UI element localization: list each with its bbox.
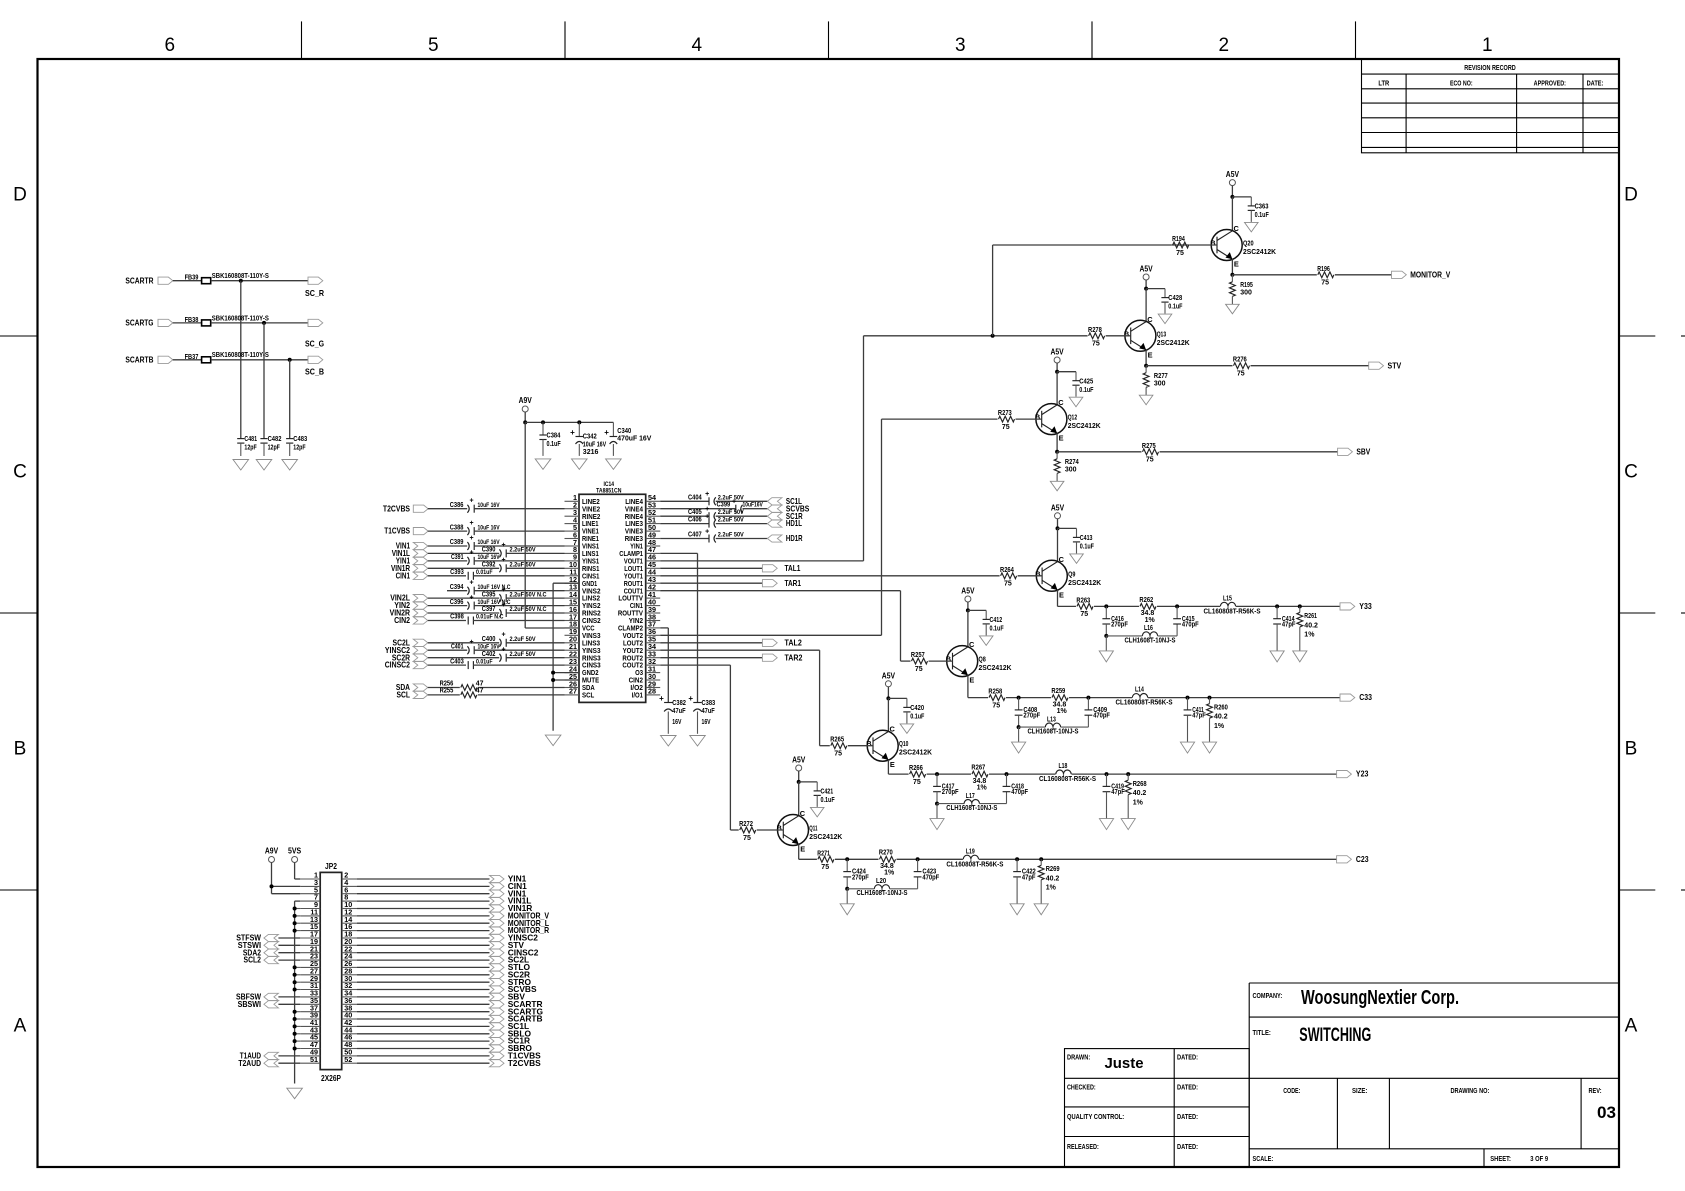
junction node SC_R <box>239 279 243 283</box>
svg-text:10uF 16V: 10uF 16V <box>478 554 501 561</box>
JP2 pin 32 <box>342 981 357 990</box>
JP2 pin 29 <box>300 974 320 983</box>
wire bus tap pin 25 <box>295 966 301 968</box>
output flag HD1L <box>767 518 802 528</box>
resistor R255 47 <box>428 688 565 698</box>
svg-text:C340: C340 <box>617 428 631 435</box>
svg-text:YINS3: YINS3 <box>582 648 601 655</box>
svg-text:47pF: 47pF <box>1282 621 1296 628</box>
JP2 pin 46 <box>342 1033 357 1042</box>
svg-text:C482: C482 <box>268 436 282 443</box>
wire cap to IC <box>506 642 564 644</box>
svg-text:470pF: 470pF <box>1093 713 1110 720</box>
svg-text:6: 6 <box>165 35 176 56</box>
zone tick left <box>0 889 38 891</box>
capacitor C425 0.1uF <box>1072 378 1094 394</box>
wire A5V down <box>1231 186 1233 197</box>
svg-text:10uF 16V N.C: 10uF 16V N.C <box>478 584 511 591</box>
input flag SCARTG <box>125 318 172 328</box>
svg-text:SCARTR: SCARTR <box>125 275 153 285</box>
svg-text:75: 75 <box>1176 250 1184 257</box>
input flag VIN2R <box>390 608 428 618</box>
svg-text:SCALE:: SCALE: <box>1253 1156 1274 1163</box>
junction <box>935 802 939 806</box>
wire pin 18 to flag YINSC2 <box>357 937 490 939</box>
svg-text:2.2uF 50V: 2.2uF 50V <box>510 651 537 658</box>
power A9V rail <box>519 395 533 412</box>
svg-text:1%: 1% <box>977 785 988 792</box>
capacitor C389 10uF 16V <box>450 535 500 550</box>
svg-text:R262: R262 <box>1139 597 1153 604</box>
IC14 pin 13 VINS2 <box>565 583 601 596</box>
ground <box>1226 304 1240 314</box>
wire to ground <box>1145 387 1147 395</box>
svg-text:R196: R196 <box>1317 266 1330 273</box>
transistor Q12 2SC2412K <box>1035 398 1101 443</box>
IC14 pin 29 I/O2 <box>630 679 660 692</box>
svg-text:C382: C382 <box>672 700 686 707</box>
junction <box>1015 857 1019 861</box>
junction <box>966 608 970 612</box>
IC14 pin 52 RINE4 <box>625 508 661 521</box>
ground <box>1270 651 1284 662</box>
JP2 pin 41 <box>300 1018 320 1027</box>
svg-text:R270: R270 <box>879 850 893 857</box>
svg-text:VOUT2: VOUT2 <box>623 633 643 640</box>
wire pin 12 to flag MONITOR_V <box>357 915 490 917</box>
svg-text:C392: C392 <box>482 562 496 569</box>
revision record table <box>1362 59 1620 152</box>
output flag YINSC2 <box>490 933 539 943</box>
resistor R194 75 <box>1172 236 1217 257</box>
IC14 pin 8 LINS1 <box>565 545 599 558</box>
svg-text:+: + <box>732 499 736 506</box>
svg-text:C: C <box>1624 461 1638 482</box>
svg-text:+: + <box>501 557 505 564</box>
svg-text:C396: C396 <box>450 599 464 606</box>
wire cap to ground <box>985 624 987 636</box>
wire cap to ground <box>1250 210 1252 222</box>
svg-text:C405: C405 <box>688 509 702 516</box>
JP2 pin 1 <box>300 871 320 880</box>
svg-text:10uF 16V: 10uF 16V <box>478 524 501 531</box>
svg-text:T1CVBS: T1CVBS <box>384 526 410 536</box>
svg-text:C391: C391 <box>451 554 464 561</box>
svg-text:2.2uF 50V N.C: 2.2uF 50V N.C <box>510 591 547 598</box>
svg-text:TITLE:: TITLE: <box>1253 1030 1271 1037</box>
svg-text:ECO NO:: ECO NO: <box>1450 81 1473 88</box>
wire R196 to MONITOR_V <box>1335 274 1392 276</box>
svg-text:10uF 16V: 10uF 16V <box>478 643 501 650</box>
input flag SBSWI <box>238 999 279 1009</box>
svg-text:2SC2412K: 2SC2412K <box>809 834 842 841</box>
svg-text:VOUT1: VOUT1 <box>624 559 643 566</box>
svg-text:52: 52 <box>344 1055 352 1064</box>
wire cap down <box>1105 624 1107 636</box>
wire pin 42 to flag SC1L <box>357 1025 490 1027</box>
input flag SCL <box>397 690 428 700</box>
svg-text:C389: C389 <box>450 539 464 546</box>
resistor R256 47 <box>428 680 565 690</box>
wire to ground <box>1105 636 1107 651</box>
svg-text:LINS2: LINS2 <box>582 596 600 603</box>
svg-text:2.2uF 50V: 2.2uF 50V <box>718 532 745 539</box>
svg-text:2SC2412K: 2SC2412K <box>1068 580 1101 587</box>
IC14 pin 36 VOUT2 <box>623 627 661 640</box>
capacitor C400 2.2uF 50V <box>482 632 536 647</box>
wire VOUT1 pin46 riser to Q13/Q20 base node <box>660 336 1087 561</box>
output flag MONITOR_R <box>490 925 550 935</box>
resistor R266 75 <box>909 765 926 786</box>
input flag VIN1 <box>396 541 428 551</box>
resistor R261 40.2 1% <box>1297 606 1318 650</box>
svg-text:SDA: SDA <box>582 685 595 692</box>
wire A5V to Q10 collector <box>887 698 889 731</box>
junction <box>293 921 297 925</box>
wire cap to ground <box>906 712 908 724</box>
wire flag to cap <box>428 649 467 651</box>
svg-text:YOUT2: YOUT2 <box>623 648 643 655</box>
ground <box>1034 904 1048 915</box>
junction A9V <box>523 420 527 424</box>
IC14 pin 15 YINS2 <box>565 597 601 610</box>
IC14 pin 10 RINS1 <box>565 560 600 573</box>
capacitor C412 0.1uF <box>983 617 1005 633</box>
IC14 pin 9 YINS1 <box>565 553 600 566</box>
svg-text:CLAMP1: CLAMP1 <box>619 551 643 558</box>
svg-text:0.1uF: 0.1uF <box>990 626 1005 633</box>
input flag VIN2L <box>390 593 428 603</box>
svg-text:C: C <box>13 461 27 482</box>
svg-text:WoosungNextier Corp.: WoosungNextier Corp. <box>1301 987 1459 1009</box>
svg-text:MONITOR_V: MONITOR_V <box>1410 269 1450 279</box>
svg-text:12pF: 12pF <box>244 445 257 452</box>
capacitor C384 0.1uF <box>539 422 561 448</box>
svg-text:C23: C23 <box>1356 854 1369 864</box>
inductor L13 CLH1608T-10NJ-S <box>1019 715 1089 735</box>
capacitor C482 12pF <box>260 436 281 452</box>
wire pin 10 to flag VIN1R <box>357 908 490 910</box>
wire bus tap pin 37 <box>295 1011 301 1013</box>
svg-text:E: E <box>1234 260 1239 269</box>
wire flag to cap <box>428 575 466 577</box>
svg-text:3 OF 9: 3 OF 9 <box>1530 1156 1548 1163</box>
wire pin 30 to flag STRO <box>357 981 490 983</box>
svg-text:75: 75 <box>1092 341 1100 348</box>
JP2 pin 5 <box>300 885 320 894</box>
svg-text:75: 75 <box>913 779 921 786</box>
transistor Q13 2SC2412K <box>1124 315 1190 360</box>
output flag STV <box>490 940 525 950</box>
wire to C413 <box>1058 528 1077 537</box>
junction <box>1208 696 1212 700</box>
capacitor C419 47pF <box>1103 774 1126 818</box>
svg-text:SCL2: SCL2 <box>244 955 262 965</box>
junction <box>1017 696 1021 700</box>
svg-text:2SC2412K: 2SC2412K <box>979 665 1012 672</box>
svg-text:SBK160808T-110Y-S: SBK160808T-110Y-S <box>212 315 269 322</box>
ground <box>1070 554 1084 564</box>
IC14 pin 51 LINE3 <box>625 515 660 528</box>
ground <box>256 460 272 471</box>
svg-text:+: + <box>469 498 473 505</box>
IC14 pin 45 LOUT1 <box>624 560 660 573</box>
output flag TAR1 <box>762 578 801 588</box>
IC14 pin 5 VINE1 <box>565 523 599 536</box>
power A5V <box>961 586 975 603</box>
wire SCARTG to FB38 <box>173 322 202 324</box>
wire cap to ground <box>816 795 818 807</box>
resistor R257 75 <box>911 652 953 673</box>
JP2 pin 45 <box>300 1033 320 1042</box>
wire to C425 <box>1057 372 1076 381</box>
JP2 pin 50 <box>342 1048 357 1057</box>
junction C384 <box>541 420 545 424</box>
JP2 pin 20 <box>342 937 357 946</box>
svg-text:C425: C425 <box>1079 378 1093 385</box>
wire <box>1006 697 1051 699</box>
resistor R268 40.2 1% <box>1125 774 1146 818</box>
resistor R273 75 <box>998 410 1042 431</box>
capacitor C397 2.2uF 50V <box>482 602 547 617</box>
svg-text:28: 28 <box>648 687 656 696</box>
IC14 pin 39 ROUTTV <box>618 605 660 618</box>
JP2 pin 13 <box>300 915 320 924</box>
svg-text:E: E <box>800 845 805 854</box>
resistor R196 75 <box>1317 266 1334 287</box>
junction Q13 emitter <box>1144 364 1148 368</box>
JP2 pin 36 <box>342 996 357 1005</box>
output flag CINSC2 <box>490 947 539 957</box>
ground <box>1121 819 1135 830</box>
resistor R277 300 <box>1143 366 1168 388</box>
junction <box>1086 696 1090 700</box>
ground <box>1293 651 1307 662</box>
svg-text:C: C <box>890 725 896 734</box>
svg-text:CL160808T-R56K-S: CL160808T-R56K-S <box>1039 776 1096 783</box>
wire bus tap pin 45 <box>295 1040 301 1042</box>
svg-text:B: B <box>14 738 27 759</box>
svg-text:R272: R272 <box>739 821 753 828</box>
svg-text:R269: R269 <box>1046 866 1060 873</box>
svg-text:RINE3: RINE3 <box>625 536 643 543</box>
JP2 pin 6 <box>342 885 357 894</box>
svg-text:Q10: Q10 <box>899 741 908 748</box>
wire flag to cap <box>428 612 499 614</box>
capacitor C363 0.1uF <box>1248 204 1270 220</box>
svg-text:470pF: 470pF <box>1182 621 1199 628</box>
IC14 pin 20 LINS3 <box>565 635 601 648</box>
output flag C33 <box>1340 692 1372 702</box>
svg-text:A9V: A9V <box>519 395 533 405</box>
svg-text:SC_R: SC_R <box>305 288 324 298</box>
svg-text:2.2uF 50V: 2.2uF 50V <box>510 547 537 554</box>
wire SCARTB to FB37 <box>173 359 202 361</box>
svg-text:RELEASED:: RELEASED: <box>1067 1144 1099 1151</box>
IC14 pin 48 YIN1 <box>630 538 660 551</box>
junction <box>1056 526 1060 530</box>
wire flag to cap <box>428 545 467 547</box>
wire Q12 emitter <box>1056 433 1058 451</box>
output flag SC1R <box>490 1036 531 1046</box>
JP2 pin 21 <box>300 944 320 953</box>
wire bead to output flag <box>211 359 308 361</box>
IC14 pin 28 I/O1 <box>632 687 661 700</box>
resistor R271 75 <box>817 850 834 871</box>
svg-text:VINE1: VINE1 <box>582 529 599 536</box>
ground <box>1012 742 1026 753</box>
wire flag to cap <box>428 597 499 599</box>
svg-text:Q11: Q11 <box>809 826 817 833</box>
wire pin 51 to C406 <box>660 523 709 525</box>
IC14 pin 31 O3 <box>635 664 660 677</box>
capacitor C424 270pF <box>843 859 869 881</box>
svg-text:Q13: Q13 <box>1157 331 1166 338</box>
svg-text:B: B <box>1124 329 1129 338</box>
output flag VIN1 <box>490 888 527 898</box>
wire A5V down <box>1056 363 1058 372</box>
svg-text:C403: C403 <box>450 658 464 665</box>
output flag SC2L <box>490 955 530 965</box>
JP2 pin 11 <box>300 908 320 917</box>
svg-text:A9V: A9V <box>265 846 279 856</box>
input flag YINSC2 <box>385 645 428 655</box>
svg-text:APPROVED:: APPROVED: <box>1534 81 1566 88</box>
ground <box>661 736 677 747</box>
wire pin 16 to flag MONITOR_R <box>357 930 490 932</box>
svg-text:75: 75 <box>821 864 829 871</box>
svg-text:A: A <box>1625 1015 1638 1036</box>
wire <box>1072 773 1337 775</box>
svg-text:R194: R194 <box>1172 236 1185 243</box>
wire flag to cap <box>428 642 499 644</box>
resistor R269 40.2 1% <box>1038 859 1059 903</box>
resistor R267 34.8 1% <box>971 765 988 792</box>
svg-text:D: D <box>1624 184 1638 205</box>
input flag SCARTB <box>125 354 172 364</box>
IC14 pin 7 VINS1 <box>565 538 600 551</box>
output flag C23 <box>1337 854 1369 864</box>
capacitor C394 10uF 16V <box>450 580 511 595</box>
svg-text:C363: C363 <box>1255 204 1269 211</box>
zone number 4 <box>692 35 703 56</box>
svg-text:0.01uF N.C: 0.01uF N.C <box>476 614 504 621</box>
svg-text:E: E <box>890 760 895 769</box>
wire down to C483 <box>289 360 291 439</box>
capacitor C393 0.01uF <box>450 569 492 580</box>
wire cap to IC <box>506 567 564 569</box>
svg-text:FB37: FB37 <box>185 354 199 361</box>
input flag T2CVBS <box>383 503 428 513</box>
transistor Q11 2SC2412K <box>777 809 843 854</box>
wire to C428 <box>1146 289 1165 298</box>
svg-text:B: B <box>946 655 951 664</box>
wire 5VS to pin 1 <box>295 863 301 880</box>
input flag T2AUD <box>238 1058 278 1068</box>
transistor Q20 2SC2412K <box>1210 224 1276 269</box>
wire bus tap pin 11 <box>295 915 301 917</box>
junction <box>293 914 297 918</box>
IC14 pin 1 LINE2 <box>565 493 600 506</box>
wire pin 4 to flag CIN1 <box>357 885 490 887</box>
wire emitter row to R271 <box>799 858 817 860</box>
power A5V <box>792 755 806 772</box>
resistor R259 34.8 1% <box>1051 688 1068 715</box>
svg-text:+: + <box>469 550 473 557</box>
output flag STLO <box>490 962 531 972</box>
svg-text:40.2: 40.2 <box>1046 875 1060 882</box>
transistor Q9 2SC2412K <box>1035 555 1101 600</box>
ground <box>1099 819 1113 830</box>
svg-text:0.01uF: 0.01uF <box>476 569 493 576</box>
input flag CINSC2 <box>385 660 428 670</box>
svg-text:1: 1 <box>1482 35 1493 56</box>
svg-text:CINSC2: CINSC2 <box>385 660 411 670</box>
wire <box>927 773 971 775</box>
IC14 pin 33 ROUT2 <box>622 650 660 663</box>
svg-text:RINS3: RINS3 <box>582 655 601 662</box>
wire <box>989 773 1056 775</box>
capacitor C408 270pF <box>1015 698 1041 720</box>
svg-text:T2CVBS: T2CVBS <box>383 503 410 513</box>
wire flag to cap <box>428 508 467 510</box>
IC14 pin 6 RINE1 <box>565 530 600 543</box>
svg-text:R271: R271 <box>817 850 830 857</box>
JP2 pin 3 <box>300 878 320 887</box>
svg-text:Q9: Q9 <box>1068 571 1075 578</box>
svg-text:A5V: A5V <box>961 586 975 596</box>
svg-text:+: + <box>501 632 505 639</box>
zone tick right <box>1619 612 1685 614</box>
svg-text:C407: C407 <box>688 532 702 539</box>
svg-text:R263: R263 <box>1076 597 1090 604</box>
svg-text:A: A <box>14 1015 27 1036</box>
svg-text:75: 75 <box>1004 581 1012 588</box>
svg-text:2SC2412K: 2SC2412K <box>1068 423 1101 430</box>
ferrite bead FB39 SBK160808T-110Y-S <box>185 273 270 284</box>
output flag SBLO <box>490 1028 532 1038</box>
svg-text:TAR2: TAR2 <box>785 652 803 662</box>
wire bus tap pin 27 <box>295 974 301 976</box>
wire cap to ground <box>289 443 291 456</box>
svg-text:R278: R278 <box>1088 327 1102 334</box>
resistor R272 75 <box>739 821 783 842</box>
wire cap to ground <box>240 443 242 456</box>
svg-text:+: + <box>705 513 709 520</box>
svg-text:+: + <box>570 428 575 437</box>
svg-text:R260: R260 <box>1214 704 1228 711</box>
wire C399 to flag <box>743 508 768 510</box>
svg-text:10uF16V: 10uF16V <box>743 502 764 509</box>
capacitor C392 2.2uF 50V <box>482 557 536 572</box>
svg-text:R255: R255 <box>440 688 454 695</box>
svg-text:SCL: SCL <box>397 690 411 700</box>
svg-text:LINE1: LINE1 <box>582 521 599 528</box>
wire cap down <box>846 877 848 889</box>
capacitor C386 10uF 16V <box>450 498 500 513</box>
svg-text:A5V: A5V <box>1226 169 1240 179</box>
zone tick right <box>1619 889 1685 891</box>
resistor R278 75 <box>1088 327 1131 348</box>
capacitor C413 0.1uF <box>1073 535 1095 551</box>
JP2 pin 4 <box>342 878 357 887</box>
svg-text:LOUTTV: LOUTTV <box>618 596 643 603</box>
input flag SC2L <box>393 637 428 647</box>
svg-text:Juste: Juste <box>1105 1055 1144 1072</box>
svg-text:YINS1: YINS1 <box>582 559 599 566</box>
svg-text:CL160808T-R56K-S: CL160808T-R56K-S <box>946 861 1003 868</box>
svg-text:CINS2: CINS2 <box>582 618 601 625</box>
